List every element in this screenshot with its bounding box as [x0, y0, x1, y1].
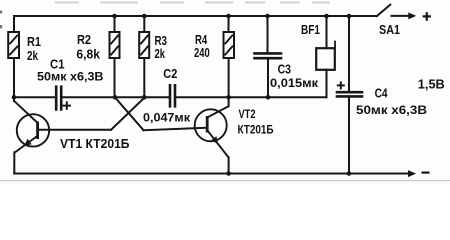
minus terminal symbol bottom right	[422, 172, 430, 174]
node dot rail C3	[265, 14, 270, 19]
capacitor C1	[56, 87, 70, 110]
capacitor C4	[337, 16, 362, 174]
arrowhead bottom minus output	[408, 170, 416, 177]
node dot VT2 collector	[226, 95, 231, 100]
arrowhead VT2 emitter	[211, 136, 218, 144]
svg-text:6,8k: 6,8k	[76, 47, 100, 62]
svg-text:VT1 КТ201Б: VT1 КТ201Б	[60, 136, 130, 151]
node dot rail R3	[142, 14, 147, 19]
scan artifact left edge marks	[0, 11, 2, 14]
svg-text:VT2: VT2	[239, 107, 256, 121]
capacitor C2	[170, 85, 175, 106]
svg-text:R1: R1	[27, 34, 41, 49]
node dot C3 bottom	[266, 95, 271, 100]
svg-text:SA1: SA1	[379, 22, 400, 37]
wire arrow to plus	[392, 15, 410, 17]
svg-text:0,015мк: 0,015мк	[270, 76, 319, 90]
transistor VT2	[115, 97, 229, 173]
plus terminal symbol top right	[423, 12, 431, 21]
node dot rail R2	[112, 14, 117, 19]
svg-text:R2: R2	[77, 32, 91, 47]
capacitor C3	[255, 16, 282, 97]
svg-text:BF1: BF1	[301, 22, 320, 37]
node dot rail C4	[347, 14, 352, 19]
switch SA1	[377, 5, 390, 16]
wire bottom rail	[14, 173, 409, 175]
scan artifact top dashes	[55, 2, 79, 4]
wire mid line right	[175, 96, 327, 98]
scan artifact bottom line	[0, 180, 450, 181]
node dot rail R4	[226, 14, 231, 19]
svg-text:С3: С3	[278, 62, 291, 77]
svg-text:50мк х6,3В: 50мк х6,3В	[356, 103, 427, 117]
node dot VT1 base net	[142, 95, 147, 100]
sound emitter BF1	[316, 16, 335, 97]
resistor R1	[8, 16, 19, 101]
svg-text:С2: С2	[163, 66, 177, 81]
transistor VT1	[14, 98, 144, 174]
resistor R2	[110, 16, 120, 97]
node dot VT1 collector	[12, 95, 17, 100]
svg-text:С4: С4	[375, 86, 389, 101]
resistor R3	[139, 16, 149, 97]
node dot VT2 base net	[113, 95, 118, 100]
svg-text:0,047мк: 0,047мк	[143, 110, 191, 124]
wire top rail	[14, 15, 377, 17]
resistor R4	[224, 16, 235, 97]
wire mid line center	[61, 96, 170, 98]
svg-text:1,5В: 1,5В	[418, 77, 445, 92]
svg-text:240: 240	[194, 45, 210, 60]
arrowhead VT1 emitter	[24, 139, 32, 146]
node dot bottom rail C4	[347, 171, 352, 176]
svg-text:2k: 2k	[155, 46, 166, 61]
node dot rail BF1	[324, 14, 329, 19]
arrowhead top plus output	[408, 12, 416, 19]
node dot bottom rail VT2 emitter	[226, 171, 231, 176]
svg-text:2k: 2k	[27, 48, 39, 63]
wire mid line left	[14, 96, 56, 98]
svg-text:50мк х6,3В: 50мк х6,3В	[37, 70, 104, 84]
svg-text:КТ201Б: КТ201Б	[238, 123, 274, 137]
